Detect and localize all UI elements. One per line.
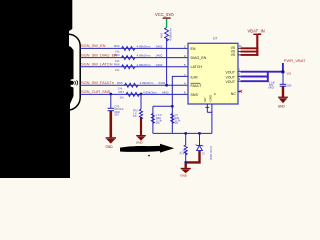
wire bottom bus: [153, 132, 212, 134]
svg-text:0402: 0402: [159, 81, 166, 85]
resistor R68: [151, 114, 154, 124]
svg-text:GND: GND: [180, 174, 188, 178]
wire VS3: [241, 54, 259, 56]
svg-text:SGN_SW_DIAG_EN: SGN_SW_DIAG_EN: [81, 52, 117, 57]
resistor R65: [125, 83, 138, 87]
wire PWR_VBAT drop: [282, 63, 284, 72]
op IC U7 body: [188, 43, 238, 104]
wire VS bus vertical: [256, 35, 258, 56]
svg-text:EN: EN: [191, 47, 196, 51]
svg-text:V08D-3C1.8: V08D-3C1.8: [210, 146, 213, 160]
svg-text:GND: GND: [106, 145, 114, 149]
svg-text:VOUT: VOUT: [226, 71, 235, 75]
wire to C80: [282, 72, 284, 84]
ground C80: [282, 86, 284, 97]
svg-text:PWR_VBAT: PWR_VBAT: [284, 58, 306, 63]
wire row2 DIAG_EN: [80, 57, 188, 59]
svg-text:0402: 0402: [162, 90, 169, 94]
svg-text:4.99kOhm: 4.99kOhm: [140, 81, 154, 85]
ground C79: [110, 111, 113, 138]
black redaction blob: [0, 0, 74, 178]
svg-text:SGN_SW_EN: SGN_SW_EN: [81, 43, 106, 48]
svg-text:FAULT: FAULT: [191, 84, 203, 88]
wire VOUT3: [241, 80, 269, 82]
svg-text:R67: R67: [119, 90, 125, 94]
svg-text:DIAG_EN: DIAG_EN: [191, 56, 207, 60]
black annotation arrow: [120, 144, 174, 153]
no connect X: [240, 90, 243, 93]
svg-text:R71: R71: [183, 149, 186, 154]
svg-text:1%: 1%: [120, 96, 125, 100]
resistor R64: [122, 56, 135, 60]
svg-text:4.99kOhm: 4.99kOhm: [143, 90, 157, 94]
svg-text:SN5: SN5: [286, 73, 291, 76]
svg-text:R62: R62: [114, 44, 120, 48]
wire loop left: [152, 106, 154, 133]
resistor R71: [184, 145, 187, 155]
svg-text:GND: GND: [209, 94, 213, 102]
wire row1 EN: [80, 47, 188, 49]
TVS diode D7: [196, 145, 204, 152]
svg-text:4.99kOhm: 4.99kOhm: [169, 27, 173, 41]
svg-text:R65: R65: [117, 81, 123, 85]
svg-text:GND: GND: [278, 105, 286, 109]
svg-text:0402: 0402: [156, 44, 163, 48]
svg-text:ILIM: ILIM: [191, 75, 198, 79]
svg-text:LATCH: LATCH: [191, 65, 203, 69]
wire pullup to FAULT row: [166, 39, 168, 85]
sheet background: [0, 0, 320, 178]
svg-text:2K: 2K: [180, 151, 183, 154]
resistor R66: [122, 65, 135, 69]
wire VOUT1: [241, 71, 283, 73]
svg-text:4.99kOhm: 4.99kOhm: [137, 44, 151, 48]
wire row4 FAULTn: [80, 84, 188, 86]
svg-text:R64: R64: [114, 53, 120, 57]
wire VS1: [241, 47, 259, 49]
wire row3 LATCH: [80, 66, 188, 68]
svg-text:VOUT: VOUT: [226, 75, 235, 79]
svg-text:C80: C80: [287, 84, 292, 87]
svg-text:4.99kOhm: 4.99kOhm: [137, 63, 151, 67]
svg-text:VCC_5V0: VCC_5V0: [155, 12, 174, 17]
wire ILIM: [172, 76, 188, 133]
wire loop top: [153, 105, 172, 107]
resistor R69: [171, 114, 174, 124]
svg-text:SGN_SW_LATCH: SGN_SW_LATCH: [81, 62, 113, 67]
capacitor C79 drop: [109, 93, 112, 96]
resistor R70: [139, 109, 142, 119]
svg-text:0402: 0402: [156, 63, 163, 67]
resistor R62: [122, 46, 135, 50]
svg-text:0402: 0402: [156, 54, 163, 58]
svg-text:U7: U7: [213, 37, 217, 41]
ground R71/D7: [186, 151, 200, 168]
capacitor C79: [108, 108, 114, 110]
svg-text:SGN_SW_FAULTn: SGN_SW_FAULTn: [81, 80, 114, 85]
resistor R70 drop: [140, 93, 143, 96]
wire EP-GND join: [207, 111, 212, 113]
svg-text:EP: EP: [203, 97, 207, 101]
junction ILIM/top: [171, 105, 174, 108]
svg-text:R66: R66: [114, 62, 120, 66]
svg-text:GND: GND: [136, 141, 144, 145]
connector capsule outline: [58, 34, 80, 110]
svg-text:VOUT: VOUT: [226, 80, 235, 84]
svg-text:SNS: SNS: [191, 93, 199, 97]
svg-text:VBAT_IN: VBAT_IN: [248, 28, 265, 33]
ground R70: [140, 117, 142, 135]
svg-text:NC: NC: [231, 92, 237, 96]
svg-text:0402: 0402: [269, 87, 275, 90]
wire VOUT join vertical: [267, 72, 269, 82]
svg-text:1%: 1%: [115, 68, 120, 72]
wire VOUT2: [241, 76, 269, 78]
TVS diode D7 drop: [198, 132, 201, 135]
svg-text:SGN_CUR_SNS: SGN_CUR_SNS: [81, 89, 111, 94]
resistor R63 pullup: [165, 28, 169, 42]
junction: [281, 70, 284, 73]
wire VS2: [241, 51, 259, 53]
svg-text:16V: 16V: [114, 114, 119, 117]
svg-text:4.99kOhm: 4.99kOhm: [137, 54, 151, 58]
resistor R67: [126, 92, 139, 96]
wire row5 SNS: [80, 93, 188, 95]
connector glyph: [70, 80, 78, 85]
resistor R71 drop: [184, 132, 187, 135]
capacitor C80: [280, 84, 287, 86]
junction: [165, 84, 168, 87]
svg-text:R63: R63: [160, 32, 164, 38]
